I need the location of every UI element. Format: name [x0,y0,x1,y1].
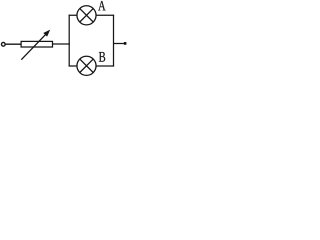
label A [98,1,106,10]
lamp A (bulb circle) [77,6,96,25]
resistor R (rheostat body) [21,41,52,47]
rheostat wiper arrow shaft [21,34,46,60]
terminal T1 (left input) [1,42,5,46]
lamp B filament X [80,59,93,72]
label B [99,52,105,62]
wire: top branch horizontal [69,14,115,16]
terminal tick at right end [124,42,127,45]
wire: left vertical branch riser [68,15,70,67]
wire: right vertical branch [113,15,115,67]
lamp A filament X [80,9,93,22]
lamp B (bulb circle) [77,56,96,75]
wire: terminal to rheostat [5,43,21,45]
wire: output stub to right edge [114,43,125,45]
wire: bottom branch horizontal [69,65,115,67]
wire: rheostat to left junction [52,43,69,45]
rheostat wiper arrowhead [43,30,50,37]
